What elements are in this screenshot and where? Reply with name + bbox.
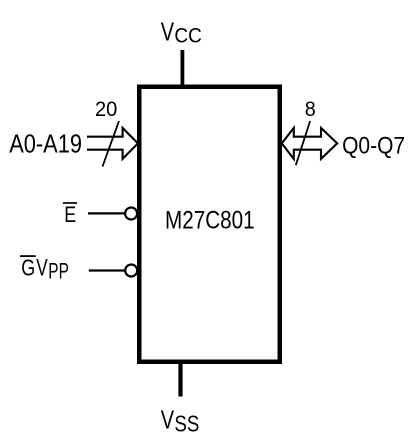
svg-text:SS: SS bbox=[174, 412, 199, 433]
svg-text:G: G bbox=[21, 255, 35, 281]
svg-text:8: 8 bbox=[305, 97, 316, 121]
svg-text:V: V bbox=[161, 405, 175, 433]
svg-text:A0-A19: A0-A19 bbox=[9, 131, 82, 159]
svg-text:M27C801: M27C801 bbox=[165, 205, 255, 233]
svg-text:V: V bbox=[161, 17, 175, 46]
svg-text:CC: CC bbox=[174, 24, 201, 47]
svg-text:PP: PP bbox=[48, 260, 69, 284]
svg-text:20: 20 bbox=[95, 97, 117, 121]
svg-text:E: E bbox=[64, 203, 76, 227]
svg-text:Q0-Q7: Q0-Q7 bbox=[342, 132, 405, 158]
svg-text:V: V bbox=[36, 255, 48, 281]
